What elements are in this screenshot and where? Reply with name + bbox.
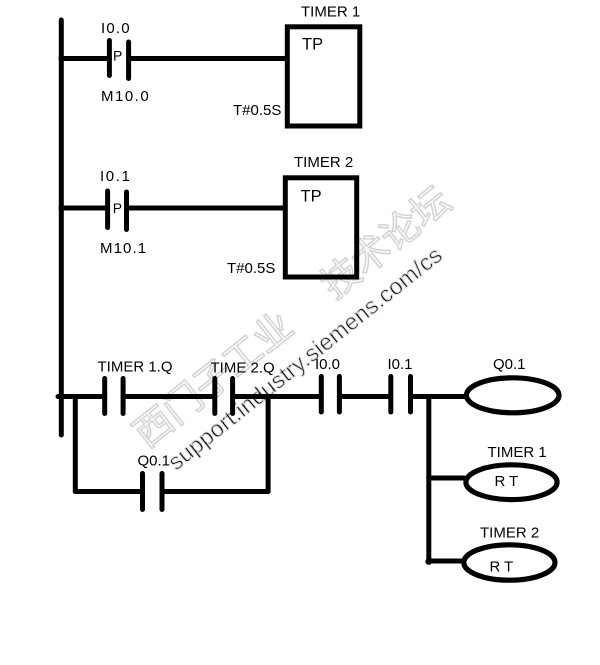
svg-text:TIMER 2: TIMER 2 xyxy=(480,525,539,542)
svg-text:TP: TP xyxy=(301,188,322,206)
svg-text:Q0.1: Q0.1 xyxy=(493,356,526,373)
svg-text:P: P xyxy=(113,200,122,216)
wire rung2 right xyxy=(127,206,286,211)
svg-text:I0.0: I0.0 xyxy=(101,20,131,37)
svg-text:TIMER 1: TIMER 1 xyxy=(488,444,547,461)
contact I0.0/M10.0 P bar2 xyxy=(126,42,131,79)
wire stub to RT coil 1 xyxy=(429,476,464,481)
svg-text:I0.1: I0.1 xyxy=(388,356,413,373)
contact I0.1 bar2 xyxy=(408,377,413,413)
contact I0.1 bar1 xyxy=(388,377,393,413)
left power rail xyxy=(59,20,64,435)
svg-text:T#0.5S: T#0.5S xyxy=(233,102,281,119)
wire branch left vertical xyxy=(73,397,78,492)
contact I0.1/M10.1 P bar2 xyxy=(124,192,129,230)
contact Q0.1 bar1 xyxy=(140,474,145,510)
wire rung1 right xyxy=(129,56,287,61)
contact TIME2.Q bar1 xyxy=(212,379,217,414)
coil TIMER1 RT xyxy=(466,465,557,500)
wire branch bottom left xyxy=(75,489,142,494)
wire RT branch vertical xyxy=(426,397,431,563)
svg-text:P: P xyxy=(113,48,122,64)
contact Q0.1 bar2 xyxy=(160,474,165,510)
wire rung3 seg3 xyxy=(233,394,322,399)
wire rung1 left xyxy=(61,56,109,61)
wire rung2 left xyxy=(61,206,108,211)
contact I0.0 bar1 xyxy=(319,377,324,413)
contact TIMER1.Q bar2 xyxy=(121,379,126,414)
svg-text:TP: TP xyxy=(302,36,323,54)
svg-text:TIMER 1.Q: TIMER 1.Q xyxy=(98,359,173,376)
wire branch bottom right xyxy=(162,489,268,494)
junction dot at RT branch corner xyxy=(425,558,432,565)
contact I0.0 bar2 xyxy=(337,377,342,413)
wire branch right vertical xyxy=(266,397,271,492)
watermark CJK line: 西门子工业 技术论坛 xyxy=(129,181,454,450)
coil Q0.1 xyxy=(466,378,559,413)
svg-text:I0.0: I0.0 xyxy=(315,356,340,373)
svg-text:TIMER 2: TIMER 2 xyxy=(294,154,353,171)
contact I0.0/M10.0 P bar1 xyxy=(107,41,112,76)
svg-text:TIMER 1: TIMER 1 xyxy=(301,4,360,21)
svg-text:T#0.5S: T#0.5S xyxy=(227,260,275,277)
contact TIMER1.Q bar1 xyxy=(102,379,107,414)
timer TIMER2 TP box xyxy=(285,178,356,277)
svg-text:RT: RT xyxy=(490,559,518,576)
svg-text:Q0.1: Q0.1 xyxy=(138,453,171,470)
wire stub to RT coil 2 xyxy=(429,559,462,564)
svg-text:RT: RT xyxy=(495,473,523,490)
contact TIME2.Q bar2 xyxy=(230,379,235,414)
svg-text:M10.0: M10.0 xyxy=(101,88,150,105)
wire rung3 seg5 to coil xyxy=(411,394,467,399)
coil TIMER2 RT xyxy=(464,545,555,580)
contact I0.1/M10.1 P bar1 xyxy=(105,191,110,228)
wire rung3 from rail xyxy=(58,394,105,399)
svg-text:TIME 2.Q: TIME 2.Q xyxy=(211,360,275,377)
timer TIMER1 TP box xyxy=(287,27,360,126)
svg-text:I0.1: I0.1 xyxy=(100,168,131,185)
svg-text:M10.1: M10.1 xyxy=(100,240,147,257)
wire rung3 seg4 xyxy=(339,394,390,399)
wire rung3 seg2 xyxy=(123,394,215,399)
